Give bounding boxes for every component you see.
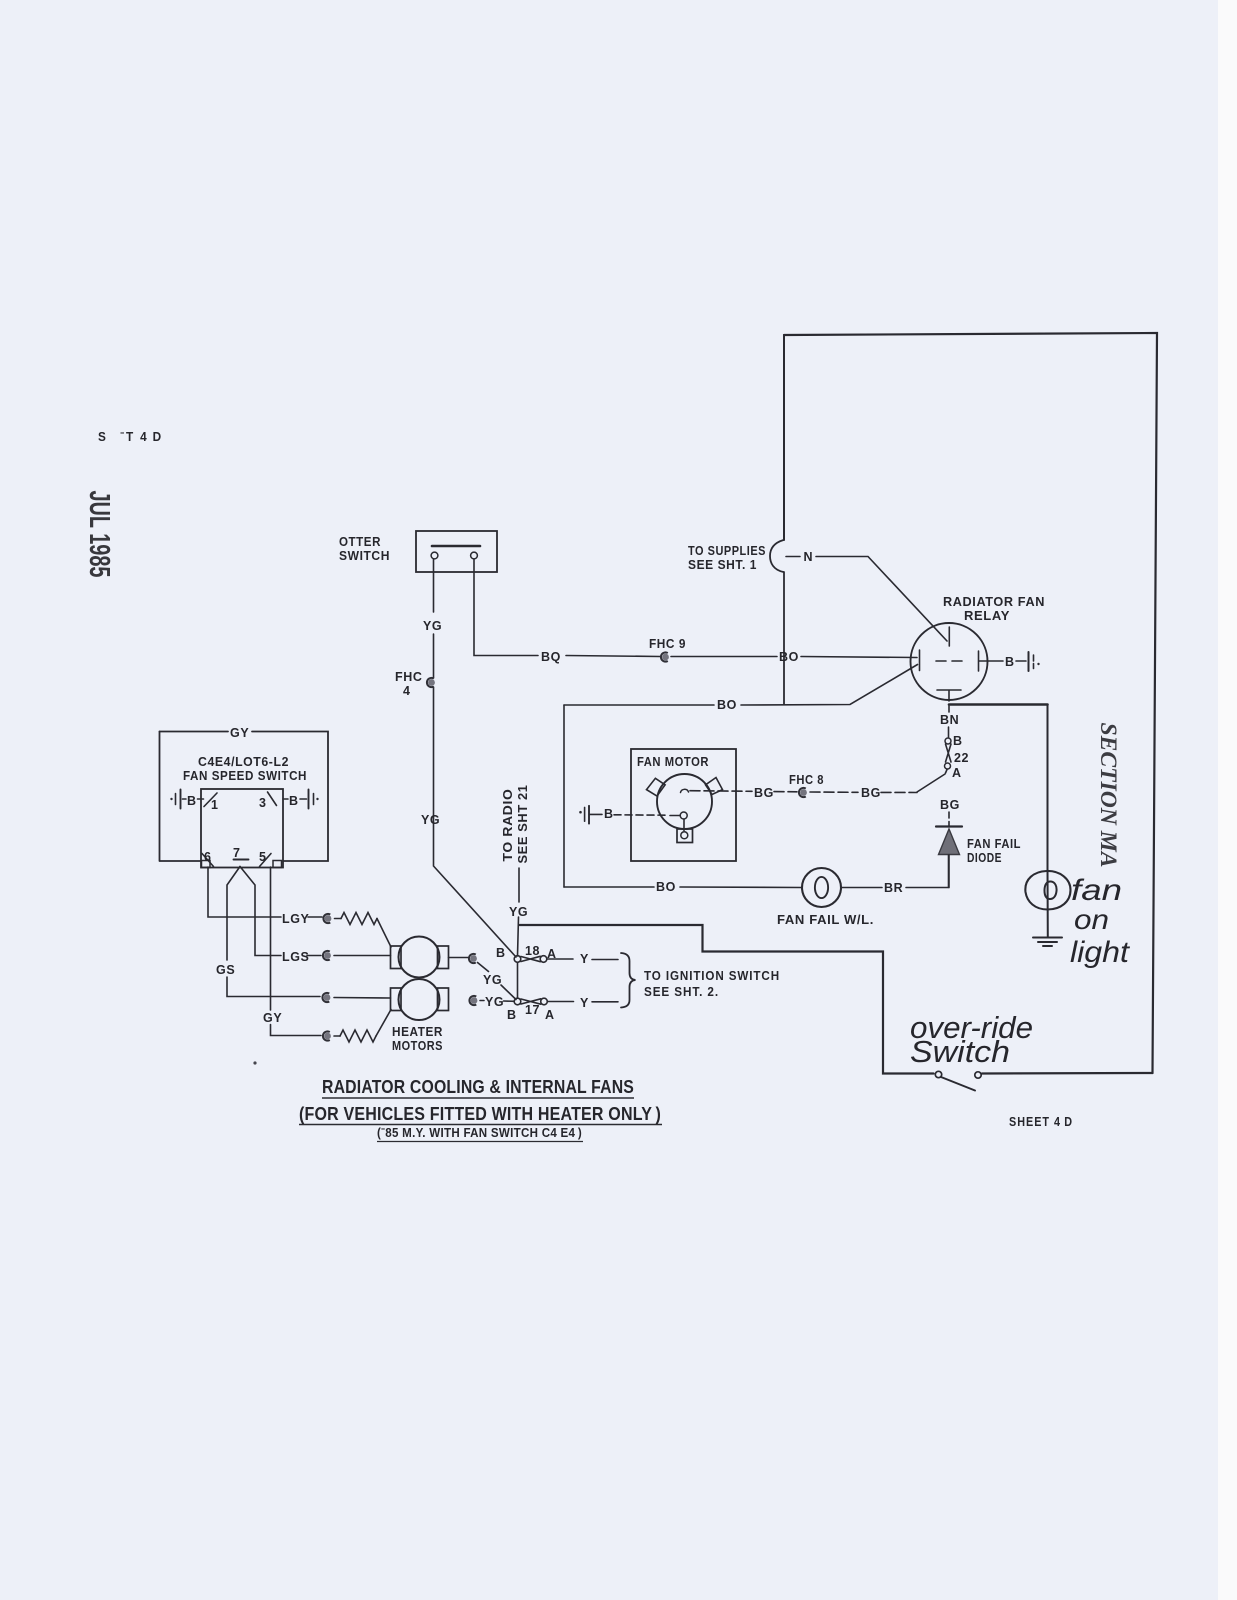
svg-text:5: 5 bbox=[259, 850, 267, 864]
svg-text:S ˉT 4 D: S ˉT 4 D bbox=[98, 429, 163, 444]
svg-text:18: 18 bbox=[525, 944, 540, 958]
svg-text:BN: BN bbox=[940, 713, 959, 727]
svg-text:FAN MOTOR: FAN MOTOR bbox=[637, 755, 709, 769]
svg-text:OTTER: OTTER bbox=[339, 535, 381, 549]
svg-text:fan: fan bbox=[1071, 874, 1122, 907]
svg-text:Y: Y bbox=[580, 996, 589, 1010]
svg-text:YG: YG bbox=[485, 995, 504, 1009]
svg-text:FHC: FHC bbox=[395, 670, 423, 684]
svg-text:BG: BG bbox=[861, 786, 881, 800]
svg-text:JUL 1985: JUL 1985 bbox=[83, 491, 115, 578]
svg-text:B: B bbox=[289, 794, 299, 808]
svg-text:TO RADIO: TO RADIO bbox=[501, 789, 515, 862]
svg-text:1: 1 bbox=[211, 798, 219, 812]
svg-text:YG: YG bbox=[509, 905, 528, 919]
svg-text:LGY: LGY bbox=[282, 912, 310, 926]
svg-text:FAN FAIL: FAN FAIL bbox=[967, 837, 1021, 851]
svg-text:MOTORS: MOTORS bbox=[392, 1039, 443, 1053]
svg-text:7: 7 bbox=[233, 846, 241, 860]
svg-text:6: 6 bbox=[204, 850, 212, 864]
svg-text:RADIATOR FAN: RADIATOR FAN bbox=[943, 595, 1045, 609]
svg-text:A: A bbox=[545, 1008, 555, 1022]
svg-text:HEATER: HEATER bbox=[392, 1025, 443, 1039]
svg-text:FAN FAIL W/L.: FAN FAIL W/L. bbox=[777, 913, 874, 927]
svg-text:FAN SPEED SWITCH: FAN SPEED SWITCH bbox=[183, 769, 307, 783]
svg-text:17: 17 bbox=[525, 1003, 540, 1017]
svg-text:SEE SHT 21: SEE SHT 21 bbox=[516, 785, 530, 864]
svg-text:FHC 8: FHC 8 bbox=[789, 773, 824, 787]
svg-text:FHC 9: FHC 9 bbox=[649, 637, 686, 651]
svg-text:SEE SHT. 1: SEE SHT. 1 bbox=[688, 558, 757, 572]
svg-text:B: B bbox=[1005, 655, 1015, 669]
svg-text:light: light bbox=[1070, 936, 1131, 969]
svg-text:SECTION MA: SECTION MA bbox=[1095, 723, 1121, 868]
svg-text:BG: BG bbox=[754, 786, 774, 800]
svg-text:BO: BO bbox=[717, 698, 737, 712]
svg-text:B: B bbox=[187, 794, 197, 808]
svg-text:RADIATOR COOLING & INTERNAL FA: RADIATOR COOLING & INTERNAL FANS bbox=[322, 1077, 634, 1097]
svg-text:SWITCH: SWITCH bbox=[339, 549, 390, 563]
svg-text:on: on bbox=[1074, 904, 1109, 935]
svg-text:TO IGNITION SWITCH: TO IGNITION SWITCH bbox=[644, 968, 780, 983]
svg-text:Y: Y bbox=[580, 952, 589, 966]
svg-text:B: B bbox=[496, 946, 506, 960]
svg-text:(ˉ85 M.Y. WITH FAN SWITCH C4: (ˉ85 M.Y. WITH FAN SWITCH C4 E4 ) bbox=[377, 1126, 582, 1140]
svg-text:LGS: LGS bbox=[282, 950, 310, 964]
svg-text:BR: BR bbox=[884, 881, 903, 895]
svg-text:22: 22 bbox=[954, 751, 969, 765]
svg-text:GY: GY bbox=[230, 726, 249, 740]
svg-text:BQ: BQ bbox=[541, 650, 561, 664]
svg-text:(FOR VEHICLES FITTED WITH HEAT: (FOR VEHICLES FITTED WITH HEATER ONLY ) bbox=[299, 1104, 661, 1124]
svg-text:BO: BO bbox=[656, 880, 676, 894]
svg-text:RELAY: RELAY bbox=[964, 609, 1010, 623]
svg-text:YG: YG bbox=[423, 619, 442, 633]
svg-text:SHEET 4 D: SHEET 4 D bbox=[1009, 1114, 1073, 1129]
svg-text:3: 3 bbox=[259, 796, 267, 810]
svg-text:B: B bbox=[953, 734, 963, 748]
svg-text:A: A bbox=[952, 766, 962, 780]
svg-text:B: B bbox=[604, 807, 614, 821]
svg-text:A: A bbox=[547, 947, 557, 961]
svg-text:YG: YG bbox=[483, 973, 502, 987]
svg-text:C4E4/LOT6-L2: C4E4/LOT6-L2 bbox=[198, 755, 289, 769]
svg-text:TO SUPPLIES: TO SUPPLIES bbox=[688, 544, 766, 558]
svg-text:N: N bbox=[804, 550, 814, 564]
svg-text:YG: YG bbox=[421, 813, 440, 827]
svg-text:DIODE: DIODE bbox=[967, 851, 1002, 865]
svg-text:SEE SHT. 2.: SEE SHT. 2. bbox=[644, 984, 719, 999]
svg-text:BG: BG bbox=[940, 798, 960, 812]
svg-text:BO: BO bbox=[779, 650, 799, 664]
svg-text:Switch: Switch bbox=[910, 1034, 1010, 1069]
svg-text:B: B bbox=[507, 1008, 517, 1022]
svg-text:4: 4 bbox=[403, 684, 411, 698]
svg-text:GY: GY bbox=[263, 1011, 282, 1025]
svg-text:GS: GS bbox=[216, 963, 235, 977]
